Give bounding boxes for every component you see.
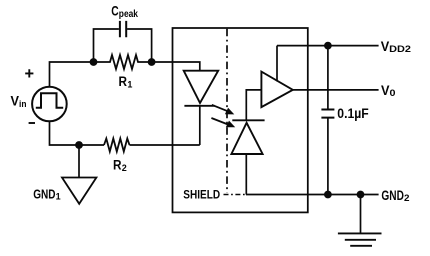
junction dot earth tap [357, 191, 365, 199]
svg-text:GND: GND [33, 187, 55, 202]
shield connection dash-dot [224, 194, 246, 196]
plus polarity mark [25, 69, 33, 77]
svg-text:GND: GND [381, 188, 404, 203]
wire R2 to LED cathode [130, 144, 200, 146]
label VDD2 [381, 38, 411, 54]
wire top rail from Vin to R1 left node [50, 62, 94, 87]
wire GND1 stem [78, 145, 80, 178]
label GND1 [33, 187, 60, 202]
svg-text:C: C [111, 2, 118, 18]
minus polarity mark [29, 122, 35, 124]
isolation barrier dash-dot line [226, 29, 228, 193]
wire amp power tap [276, 46, 278, 82]
svg-text:1: 1 [127, 80, 132, 90]
capacitor 0.1uF bypass [327, 46, 329, 195]
LED D1 [184, 71, 219, 106]
label 0.1uF [337, 106, 369, 122]
wire VDD2 rail [277, 45, 379, 47]
earth ground [360, 195, 362, 234]
wire amp output V0 [293, 89, 379, 91]
svg-text:R: R [119, 74, 128, 89]
label V0 [381, 82, 396, 98]
resistor R1 [94, 55, 152, 69]
junction dot R1 left [90, 58, 98, 66]
label GND2 [381, 188, 409, 203]
svg-text:SHIELD: SHIELD [183, 188, 220, 202]
label R1 [119, 74, 133, 89]
pulse source Vin [32, 87, 67, 122]
svg-text:2: 2 [404, 193, 410, 203]
label Cpeak [111, 2, 138, 20]
svg-text:peak: peak [119, 9, 139, 20]
wire Vin bottom to R2 [50, 121, 105, 145]
wire LED cathode down [199, 106, 201, 145]
svg-text:0.1µF: 0.1µF [337, 106, 369, 122]
photodiode D2 [231, 120, 264, 154]
label SHIELD [183, 188, 220, 202]
wire photodiode anode down [245, 154, 247, 195]
label R2 [113, 157, 127, 172]
junction dot at GND1 tap [75, 141, 83, 149]
svg-text:R: R [113, 157, 122, 172]
svg-text:in: in [19, 99, 27, 110]
junction dot bypass cap to GND2 [324, 191, 332, 199]
capacitor Cpeak loop wires [94, 29, 152, 62]
svg-text:DD2: DD2 [389, 44, 411, 54]
shield box [173, 28, 308, 212]
capacitor Cpeak plates [120, 21, 126, 37]
light arrows [211, 105, 229, 125]
wire R1 node to LED anode [152, 62, 200, 71]
op-amp buffer U1 [261, 72, 292, 108]
junction dot R1 right [148, 58, 156, 66]
wire GND2 rail [246, 194, 379, 196]
resistor R2 [104, 139, 130, 152]
junction dot VDD2 bypass [324, 42, 332, 50]
svg-text:0: 0 [390, 88, 396, 98]
svg-text:1: 1 [56, 192, 61, 202]
label Vin [11, 92, 27, 110]
wire photodiode cathode to amp input [246, 90, 261, 120]
ground GND1 [62, 178, 96, 204]
svg-text:2: 2 [122, 163, 127, 173]
